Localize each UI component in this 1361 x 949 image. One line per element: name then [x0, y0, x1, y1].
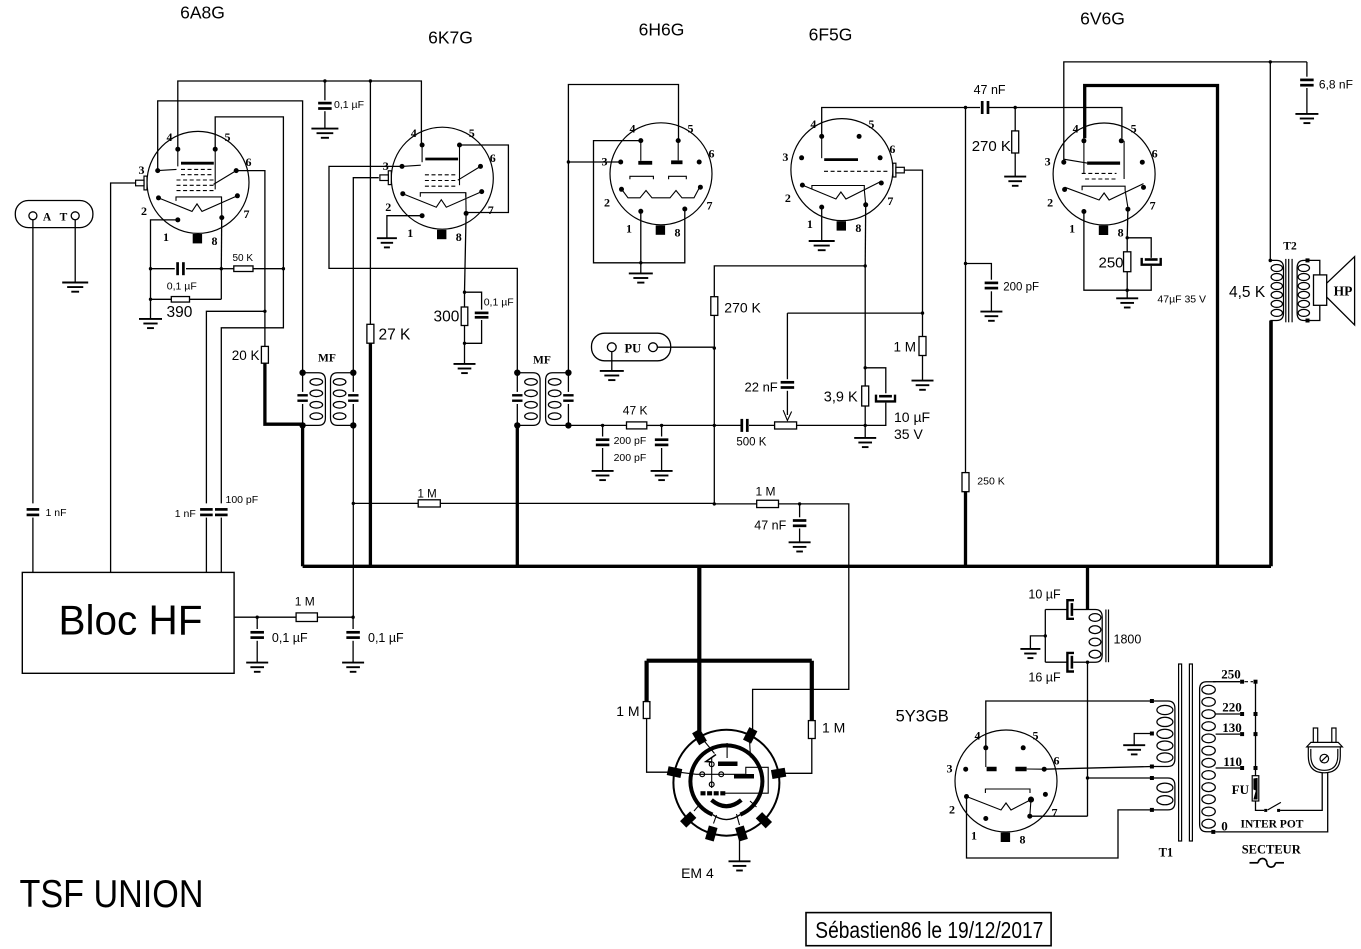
ground 200pF plate: [980, 312, 1002, 321]
wire 5Y3GB pin2 filament to T1 rectifier winding: [967, 797, 1152, 859]
capacitor 0,1 uF cathode 6K7G: [475, 313, 489, 317]
wire plate load 250K column: [965, 108, 967, 264]
tube 6A8G pin dots 1-8: [155, 147, 240, 223]
wire 6A8G pin8 down to cathode node: [220, 218, 222, 269]
wire choke bottom to 5Y3 cathode line: [1087, 662, 1089, 816]
capacitor 0,1 uF cathode 6A8G: [178, 262, 184, 275]
tube 6K7G internal electrodes: [402, 145, 482, 213]
svg-text:3: 3: [602, 154, 608, 168]
svg-text:8: 8: [212, 234, 218, 248]
T1 HV winding (upper left): [1152, 701, 1175, 767]
wire to coupling cap: [714, 424, 740, 426]
wire thick T2 primary bottom to B+ bus: [1269, 321, 1273, 567]
output transformer T2 primary winding: [1270, 260, 1283, 320]
svg-text:0,1 µF: 0,1 µF: [167, 281, 197, 293]
wire fuse to switch: [1256, 801, 1265, 810]
svg-text:10 µF: 10 µF: [894, 409, 930, 425]
resistor 390 cathode bias: [190, 298, 222, 300]
potentiometer wiper arrow from 22nF: [786, 391, 788, 415]
svg-text:390: 390: [167, 304, 193, 321]
wire tap 0 to mains return: [1216, 773, 1328, 832]
svg-text:270 K: 270 K: [972, 138, 1011, 155]
wire 6A8G pin1 to cathode network: [151, 220, 178, 269]
wire 6H6G pin4 pin1 pin8 ground loop: [594, 141, 685, 263]
svg-text:2: 2: [949, 803, 955, 817]
ground screen decoupling cap: [311, 129, 338, 138]
tube 6V6G pin dots 1-8: [1061, 138, 1146, 214]
wire switch to mains: [1280, 773, 1322, 811]
wire 1nF to Bloc HF top: [32, 518, 34, 573]
wire to ground left: [256, 641, 258, 663]
resistor 270 K PU isolation: [711, 297, 718, 316]
IF transformer MF1 secondary tuning capacitor: [352, 373, 354, 392]
PU terminal right circle: [649, 343, 658, 352]
node oscillator junction 20K top: [263, 310, 266, 313]
wire antenna A down to Bloc HF: [32, 220, 34, 504]
capacitor 1 nF antenna: [27, 509, 40, 515]
node MF2 primary bottom: [514, 422, 520, 428]
pickup connector PU block: [592, 333, 671, 361]
wire tap 130: [1216, 733, 1240, 735]
capacitor 10 uF filter electrolytic: [1045, 609, 1066, 611]
svg-text:1 nF: 1 nF: [175, 508, 196, 520]
svg-text:6: 6: [246, 155, 252, 169]
svg-text:1800: 1800: [1114, 633, 1142, 647]
svg-text:3: 3: [947, 762, 953, 776]
wire 6A8G pin5 oscillator anode grid loop: [215, 117, 283, 504]
svg-text:8: 8: [1020, 833, 1026, 847]
node 200pF first junction: [601, 424, 604, 427]
svg-text:5: 5: [469, 126, 475, 140]
svg-text:2: 2: [785, 191, 791, 205]
svg-text:4: 4: [1073, 122, 1079, 136]
tube 6F5G pin number labels: [782, 117, 895, 235]
node decoupling cap junction on top rail: [323, 79, 326, 82]
capacitor 200 pF plate bypass: [985, 283, 999, 288]
wire 1M right to EM4 pin: [782, 739, 812, 774]
wire cap to pin8 node: [186, 268, 221, 270]
wire EM4 cathode to ground: [739, 838, 741, 861]
node 47nF AVC junction: [798, 502, 801, 505]
capacitor 47 nF AF coupling: [982, 101, 988, 114]
ground 6F5G pin1: [809, 241, 835, 250]
svg-text:1 M: 1 M: [418, 488, 437, 500]
svg-text:T: T: [60, 211, 68, 223]
wire 200pF to ground: [990, 291, 992, 311]
node 200pF tap: [964, 262, 967, 265]
node bias network top: [864, 366, 867, 369]
grid cap connector 6A8G: [136, 176, 147, 190]
svg-text:8: 8: [855, 221, 861, 235]
svg-text:7: 7: [244, 207, 250, 221]
svg-text:HP: HP: [1334, 283, 1353, 298]
resistor 1 M AVC: [418, 500, 440, 507]
node T2 secondary bottom terminal: [1306, 319, 1310, 323]
tube EM4 internal target anode bar 2: [734, 774, 754, 779]
svg-text:2: 2: [604, 195, 610, 209]
ground 6K7G pin1: [377, 238, 397, 247]
IF transformer MF2 primary coil: [517, 373, 540, 426]
tube 6F5G pin dots 1-8: [799, 134, 884, 210]
svg-text:1: 1: [971, 829, 977, 843]
capacitor 22 nF grid coupling: [786, 313, 788, 379]
filter choke 1800 winding: [1088, 610, 1103, 663]
node 6H6G pin3 junction on diode line: [567, 160, 570, 163]
tube 5Y3GB internal electrodes: [967, 748, 1045, 816]
grid cap connector 6F5G right side: [893, 163, 904, 177]
svg-text:1 M: 1 M: [616, 703, 639, 719]
tube 6K7G envelope: [391, 127, 493, 229]
IF transformer MF1 secondary coil: [331, 373, 354, 426]
tube 6H6G internal electrodes: [622, 141, 701, 198]
svg-text:250: 250: [1221, 667, 1241, 682]
wire 270K bottom to PU node: [713, 315, 715, 348]
tube 6A8G internal electrodes: [158, 149, 238, 217]
tube 6H6G envelope: [610, 123, 712, 225]
wire rectifier winding top from junction: [1088, 777, 1152, 779]
node MF1 primary bottom: [299, 422, 305, 428]
svg-text:0,1 µF: 0,1 µF: [272, 631, 308, 645]
wire 6A8G pin6 to oscillator feedback down-left: [236, 171, 265, 347]
T1 mains primary winding (right): [1200, 682, 1216, 832]
svg-text:2: 2: [1047, 196, 1053, 210]
ground tone cap: [1295, 114, 1318, 123]
ground 1M grid leak: [912, 381, 934, 390]
node 6K7G cathode top: [463, 291, 466, 294]
svg-text:2: 2: [385, 200, 391, 214]
node 390 left junction: [149, 298, 152, 301]
svg-text:1 nF: 1 nF: [46, 507, 67, 519]
wire 6V6G pin8 cathode down: [1126, 209, 1129, 238]
ground 6V6G cathode: [1116, 298, 1138, 307]
svg-text:5Y3GB: 5Y3GB: [896, 707, 949, 725]
svg-text:1 M: 1 M: [894, 340, 917, 355]
wire MF2 secondary top up to 6H6G diode plates: [568, 85, 678, 373]
wire 5Y3GB pin6 anode to T1 HV bottom: [1044, 767, 1152, 770]
svg-text:0,1 µF: 0,1 µF: [368, 631, 404, 645]
Bloc HF block: [22, 572, 234, 673]
node MF1 secondary top: [350, 370, 356, 376]
resistor 1 M EM4 left: [643, 702, 650, 719]
ground 200pF 1: [592, 471, 614, 480]
resistor 3,9 K cathode bias: [864, 368, 866, 386]
ground 6K7G cathode: [454, 364, 476, 373]
capacitor 0,1 uF Bloc HF right: [352, 617, 354, 629]
svg-text:FU: FU: [1232, 782, 1250, 797]
tube 6V6G keyway: [1099, 226, 1108, 235]
signature box: [806, 913, 1051, 946]
svg-text:200 pF: 200 pF: [1003, 282, 1039, 294]
wire top rail to 27K: [369, 81, 371, 324]
resistor 1 M EM4 right: [808, 721, 815, 739]
wire 100pF to Bloc HF: [220, 518, 222, 573]
tube EM4 base pins: [667, 727, 787, 841]
wire 6F5G pin1 to ground: [821, 207, 823, 241]
node cathode bottom: [864, 424, 867, 427]
wire 6K7G pin1 to ground: [387, 216, 422, 239]
node cathode network top-left: [149, 267, 152, 270]
ground 3,9K: [854, 438, 876, 447]
svg-text:1: 1: [807, 217, 813, 231]
tube 6K7G pin number labels: [383, 126, 496, 244]
node T2 primary top terminal: [1269, 259, 1273, 263]
node selector 220: [1254, 712, 1258, 716]
wire 6K7G pin5 suppressor loop to pin8: [460, 145, 509, 213]
tube EM4 internal triode electrodes: [700, 762, 724, 787]
wire 6H6G pin3 to diode line: [568, 161, 621, 163]
wire 47nF to ground: [799, 529, 801, 543]
wire 6K7G pin3 anode to MF2 primary top: [329, 166, 517, 371]
wire T1 center tap to ground: [1134, 734, 1152, 746]
ground 6H6G: [629, 273, 653, 282]
wire PU left to ground: [611, 352, 613, 371]
svg-text:47 K: 47 K: [623, 403, 648, 417]
tube EM4 bottom bump: [713, 815, 741, 820]
wire oscillator junction left and down to Bloc HF: [206, 311, 265, 503]
wire cathode node horizontal with cap: [151, 268, 175, 270]
wire AVC line to volume column: [440, 502, 714, 504]
node 50K to oscillator-grid line: [282, 267, 285, 270]
wire anode line to tone cap: [1270, 61, 1307, 63]
wire thick MF1 primary bottom to B+ bus: [301, 425, 304, 566]
tube 5Y3GB pin dots 1-8: [963, 745, 1048, 821]
wire AVC line from MF1 secondary: [353, 502, 418, 504]
svg-text:3: 3: [139, 163, 145, 177]
tube EM4 internal grid dashes: [701, 791, 706, 795]
node pin8 cathode junction: [220, 267, 223, 270]
node T1 HV top terminal: [1150, 699, 1154, 703]
node Bloc HF cap left: [256, 616, 259, 619]
svg-text:5: 5: [225, 130, 231, 144]
wire MF2 secondary bottom to 47K: [568, 424, 602, 426]
IF transformer MF1 primary coil: [303, 373, 326, 426]
wire thick EM4 branch horizontal: [647, 659, 812, 663]
wire 6F5G pin8 cathode down: [864, 205, 867, 266]
svg-text:3,9 K: 3,9 K: [824, 390, 858, 406]
svg-text:8: 8: [456, 230, 462, 244]
wire tap 220: [1216, 713, 1240, 715]
svg-text:A: A: [43, 211, 52, 223]
tube 6H6G pin number labels: [602, 121, 715, 239]
wire B+ rail top (y=81) from 6A8G pin4 to 6K7G pin4: [178, 81, 422, 149]
capacitor 47 nF AVC: [799, 504, 801, 517]
capacitor 47uF 35V electrolytic 6V6G: [1127, 238, 1151, 258]
potentiometer 500 K volume: [775, 422, 797, 429]
resistor 1 M grid leak 6F5G: [922, 313, 924, 336]
capacitor 16 uF filter electrolytic: [1045, 661, 1066, 663]
svg-text:Bloc HF: Bloc HF: [59, 596, 203, 643]
svg-text:270 K: 270 K: [724, 300, 761, 316]
wire thick MF2 primary bottom to B+ bus: [516, 425, 519, 566]
T1 rectifier filament winding (lower left): [1152, 778, 1175, 810]
svg-text:8: 8: [675, 225, 681, 239]
wire thick 20K to MF1 primary bottom: [265, 363, 303, 424]
svg-text:5: 5: [868, 117, 874, 131]
wire thick B+ bus down to filter: [1086, 566, 1089, 609]
resistor 20 K oscillator anode feed: [261, 346, 268, 363]
svg-text:6: 6: [889, 142, 895, 156]
node T1 HV bottom terminal: [1150, 765, 1154, 769]
node 6K7G cathode bottom: [463, 342, 466, 345]
node MF1 secondary bottom: [350, 422, 356, 428]
wire voltage selector column: [1255, 682, 1257, 776]
capacitor 100 pF oscillator grid: [215, 509, 228, 515]
node tap 130 terminal: [1240, 732, 1244, 736]
wire earth T down to ground: [74, 220, 76, 283]
filter choke 1800 core: [1106, 610, 1109, 663]
speaker HP horn: [1327, 257, 1355, 325]
node MF2 primary top: [514, 370, 520, 376]
mains plug top plate: [1307, 742, 1343, 747]
ground 6A8G cathode: [139, 319, 162, 328]
capacitor 0,1 uF Bloc HF left: [256, 617, 258, 629]
fuse FU: [1252, 776, 1259, 801]
svg-text:6,8 nF: 6,8 nF: [1319, 78, 1353, 92]
svg-text:2: 2: [141, 204, 147, 218]
svg-text:6: 6: [1054, 754, 1060, 768]
wire tap 110: [1216, 767, 1240, 769]
power transformer T1 core: [1179, 664, 1193, 841]
node tap 220 terminal: [1240, 712, 1244, 716]
node T2 primary junction: [1269, 60, 1272, 63]
wire cap to ground: [324, 111, 326, 128]
tube 6F5G envelope: [791, 119, 893, 221]
ground T1 center tap: [1123, 745, 1145, 754]
tube EM4 inner screen ring: [690, 745, 762, 814]
svg-text:1: 1: [163, 230, 169, 244]
svg-text:PU: PU: [624, 341, 641, 355]
svg-text:4: 4: [630, 121, 636, 135]
wire 47K output to series cap: [662, 424, 715, 426]
node MF2 secondary top: [565, 370, 571, 376]
node T1 HV center tap terminal: [1150, 732, 1154, 736]
svg-text:EM 4: EM 4: [681, 865, 714, 881]
node 6H6G ground junction: [639, 261, 642, 264]
tube 5Y3GB pin number labels: [947, 729, 1060, 847]
tube 6A8G envelope: [147, 131, 249, 233]
node Bloc HF cap right: [351, 616, 354, 619]
wire 1M to ground: [922, 356, 924, 381]
node T1 filament top terminal: [1150, 776, 1154, 780]
wire cap bottom to cathode bottom node: [465, 320, 482, 343]
tube EM4 cap arrow: [706, 755, 716, 763]
wire tone cap to ground: [1306, 88, 1308, 114]
node 200pF second junction: [660, 424, 663, 427]
svg-text:250: 250: [1099, 254, 1124, 271]
wire 6H6G pin1 down: [640, 211, 642, 262]
mains plug screw circle: [1320, 754, 1329, 763]
wire volume top column: [713, 348, 715, 504]
svg-text:130: 130: [1222, 720, 1242, 735]
tube 6H6G keyway: [656, 225, 665, 234]
capacitor 0,1 uF screen decoupling: [324, 81, 326, 100]
wire Bloc HF AGC output line: [234, 616, 257, 618]
node 6F5G grid junction: [921, 311, 924, 314]
node selector 130: [1254, 732, 1258, 736]
wire cathode down to bias network: [864, 266, 866, 368]
wire MF1 secondary bottom down to AVC line: [352, 425, 354, 617]
resistor 250 cathode bias 6V6G: [1126, 238, 1128, 252]
wire thick EM4 right branch down: [810, 661, 814, 721]
antenna terminal block A T: [15, 201, 93, 228]
node PU junction: [713, 346, 716, 349]
antenna terminal A circle: [29, 212, 37, 220]
svg-text:7: 7: [1052, 806, 1058, 820]
ground EM4: [729, 861, 751, 870]
node volume line crossing: [713, 424, 716, 427]
output transformer T2 core: [1286, 259, 1292, 322]
svg-text:6: 6: [490, 151, 496, 165]
wire thick 250K to B+ bus: [964, 492, 967, 567]
svg-text:T1: T1: [1159, 846, 1174, 860]
wire cathode left leg down: [150, 269, 152, 319]
earth terminal T circle: [71, 212, 79, 220]
wire 1nF to Bloc HF: [205, 518, 207, 573]
wire 5Y3GB pin8 filament to choke line: [1030, 815, 1088, 817]
IF transformer MF1 primary tuning capacitor: [302, 373, 304, 392]
wire cap to potentiometer: [749, 424, 775, 426]
tube 5Y3GB keyway: [1001, 833, 1010, 842]
wire cathode node to cap branch: [465, 292, 482, 309]
switch INTER POT lever: [1268, 802, 1281, 810]
node MF2 secondary bottom: [565, 422, 571, 428]
svg-text:7: 7: [707, 198, 713, 212]
svg-text:INTER POT: INTER POT: [1241, 819, 1304, 831]
node AVC at volume column: [713, 502, 716, 505]
svg-text:MF: MF: [318, 353, 336, 365]
node T2 secondary top terminal: [1306, 258, 1310, 262]
svg-text:1 M: 1 M: [295, 595, 315, 609]
wire 1M left to EM4 pin: [647, 719, 672, 773]
wire T2 primary top from anode line: [1269, 62, 1271, 261]
svg-text:50 K: 50 K: [233, 253, 254, 264]
wire selector dashed link 250: [1245, 681, 1254, 683]
tube EM4 internal connection lines: [679, 740, 768, 826]
svg-text:Sébastien86 le 19/12/2017: Sébastien86 le 19/12/2017: [815, 917, 1043, 943]
svg-text:6: 6: [709, 146, 715, 160]
switch INTER POT left contact: [1264, 809, 1267, 812]
wire cathode to ground: [464, 343, 466, 364]
svg-text:16 µF: 16 µF: [1028, 671, 1061, 685]
wire thick 27K to B+ bus: [369, 343, 372, 566]
node 6F5G cathode junction 270K: [864, 264, 867, 267]
svg-text:1: 1: [626, 221, 632, 235]
resistor 1 M AVC filter: [757, 500, 779, 507]
wire thick B+ bus to EM4 feed: [697, 566, 701, 660]
svg-text:5: 5: [1033, 729, 1039, 743]
svg-text:5: 5: [1131, 122, 1137, 136]
wire 6V6G pin1 to cathode ground: [1084, 212, 1127, 291]
node choke bottom junction: [1086, 661, 1089, 664]
svg-text:4: 4: [975, 729, 981, 743]
svg-text:3: 3: [1045, 155, 1051, 169]
tube EM4 outer envelope: [673, 730, 779, 836]
svg-text:6K7G: 6K7G: [428, 28, 473, 48]
wire thick 6V6G pin4 screen to B+ bus: [1085, 86, 1218, 567]
tube 6A8G keyway: [193, 234, 202, 243]
svg-text:4,5 K: 4,5 K: [1229, 284, 1266, 301]
ground Bloc HF right: [342, 663, 364, 672]
node grid resistor junction: [1014, 106, 1017, 109]
svg-text:300: 300: [434, 309, 460, 326]
AC mains symbol: [1250, 859, 1285, 868]
speaker HP body: [1314, 275, 1327, 305]
resistor 47 K detector load: [627, 422, 647, 429]
tube 6F5G internal electrodes: [802, 136, 889, 204]
switch INTER POT right contact: [1277, 809, 1280, 812]
node tap 110 terminal: [1240, 766, 1244, 770]
tube EM4 internal target anode bar 1: [718, 762, 738, 767]
